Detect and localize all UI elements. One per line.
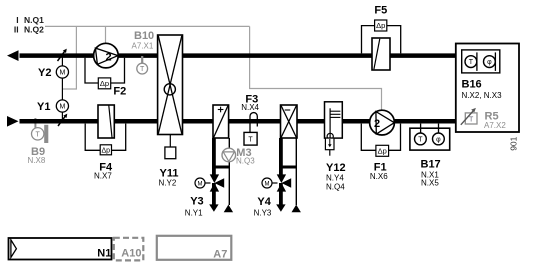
monitor F1 dp box (376, 145, 389, 156)
cooling coil box (281, 105, 298, 138)
room unit B16 T sensor (465, 56, 477, 68)
actuator Y1 M circle (56, 100, 68, 112)
svg-text:A7.X2: A7.X2 (484, 121, 506, 130)
fan supply (2-speed) (370, 110, 395, 135)
svg-text:N.Y4: N.Y4 (326, 173, 344, 182)
svg-text:II: II (14, 25, 19, 35)
svg-text:N.Q3: N.Q3 (236, 157, 255, 166)
room unit B16 humidity sensor (484, 56, 496, 68)
monitor F4 dp loop (85, 124, 126, 151)
svg-text:N.Y3: N.Y3 (254, 209, 272, 218)
sensor B17 stems (420, 124, 422, 134)
filter F5 box (372, 38, 390, 70)
monitor F4 dp box (100, 145, 111, 155)
arrow supply air in (right) (7, 116, 19, 127)
fan extract (2-speed) (94, 43, 119, 68)
svg-text:Δp: Δp (100, 79, 109, 88)
arrow Y4 return up (292, 205, 301, 213)
svg-text:2: 2 (106, 52, 112, 64)
svg-text:M: M (198, 181, 203, 187)
svg-text:N.X7: N.X7 (94, 172, 112, 181)
svg-text:N.Q1: N.Q1 (24, 15, 44, 25)
heating coil box (213, 105, 229, 138)
sensor B9 wall bar (44, 125, 48, 143)
svg-text:Y12: Y12 (326, 162, 346, 174)
filter F4 box (98, 105, 114, 138)
duct extract (top) (20, 53, 458, 58)
monitor F5 dp box (375, 20, 387, 31)
room unit B16 box (456, 44, 519, 133)
svg-text:N.Q2: N.Q2 (24, 25, 44, 35)
pump M3 (222, 148, 236, 162)
valve Y4 (3-way) (279, 183, 283, 205)
svg-text:2: 2 (374, 118, 380, 130)
svg-text:φ: φ (487, 59, 492, 66)
wire Y1 actuator link (61, 112, 63, 119)
pipe heating supply (thick) (212, 138, 216, 175)
wire gray run to supply fan (250, 26, 382, 111)
svg-text:N.Y1: N.Y1 (185, 209, 203, 218)
actuator Y11 box (165, 147, 176, 159)
svg-text:Δp: Δp (378, 146, 387, 155)
svg-text:B16: B16 (462, 78, 482, 90)
heat recovery wheel Y11 (158, 35, 183, 135)
pipe cooling supply (thick) (279, 138, 283, 175)
svg-text:T: T (36, 131, 41, 138)
sensor B10 circle (137, 63, 148, 74)
svg-text:T: T (469, 117, 474, 124)
svg-text:Δp: Δp (102, 148, 111, 155)
svg-text:F2: F2 (113, 86, 126, 98)
actuator Y3 M circle (205, 182, 211, 184)
svg-text:B10: B10 (134, 30, 154, 42)
svg-text:M: M (59, 70, 65, 77)
svg-text:Y3: Y3 (190, 196, 203, 208)
module A10 dashed box (114, 238, 144, 261)
svg-text:B17: B17 (421, 158, 441, 170)
thermostat F3 capillary (250, 113, 257, 133)
svg-text:T: T (140, 66, 145, 73)
room unit B16 sensor frame (462, 50, 500, 73)
monitor F2 dp loop (85, 58, 125, 83)
wire Y11 actuator stem (169, 135, 171, 148)
wire Y2 actuator link (61, 58, 63, 67)
pipe cooling bypass stub (280, 166, 297, 169)
setpoint R5 symbol (465, 113, 477, 124)
monitor F2 dp box (98, 78, 110, 89)
arrow Y4 supply down (276, 204, 285, 211)
pipe heating bypass stub (213, 166, 230, 169)
damper blade top duct (58, 50, 66, 61)
sensor B10 stem (141, 56, 143, 63)
svg-text:Δp: Δp (376, 21, 385, 30)
svg-text:Y2: Y2 (38, 67, 51, 79)
humidifier Y12 water sub-box (325, 138, 334, 150)
svg-text:I: I (16, 15, 18, 25)
svg-text:N.X4: N.X4 (241, 103, 259, 112)
node N.Q1 bus gray horizontal (45, 25, 250, 27)
svg-text:A7.X1: A7.X1 (132, 42, 154, 51)
svg-text:φ: φ (436, 137, 441, 144)
svg-text:N.X2, N.X3: N.X2, N.X3 (462, 91, 503, 100)
damper blade bottom duct (58, 115, 66, 126)
monitor F1 dp loop (361, 124, 400, 151)
arrow Y3 supply down (209, 204, 218, 211)
sensor B9 circle (32, 128, 44, 140)
arrow extract air out (left) (7, 50, 19, 61)
valve Y3 (3-way) (212, 183, 216, 205)
wire Y12 stem (329, 150, 331, 156)
svg-text:Y1: Y1 (37, 101, 50, 113)
monitor F5 dp loop (362, 26, 401, 54)
svg-text:T: T (469, 59, 474, 66)
svg-text:N.Q4: N.Q4 (326, 183, 345, 192)
svg-text:N.X8: N.X8 (28, 156, 46, 165)
sensor B9 stem (34, 118, 36, 128)
actuator Y2 M circle (56, 66, 68, 78)
wire link between dampers (61, 78, 63, 100)
humidifier Y12 box (325, 102, 343, 138)
wire gray drop to extract fan (105, 26, 107, 44)
svg-text:T: T (418, 137, 423, 144)
svg-text:N.Y2: N.Y2 (159, 178, 177, 187)
svg-text:M: M (59, 104, 65, 111)
svg-text:T: T (248, 137, 253, 144)
arrow Y3 return up (224, 205, 233, 213)
pipe cooling return (thin) (295, 138, 297, 205)
svg-text:N.X6: N.X6 (370, 172, 388, 181)
wire gray drop to damper link (62, 26, 76, 89)
svg-text:Y4: Y4 (257, 196, 271, 208)
thermostat F3 box (244, 132, 257, 145)
actuator Y4 M circle (272, 182, 278, 184)
sensor B17 T circle (415, 133, 427, 145)
svg-text:F5: F5 (374, 5, 387, 17)
controller N1 box (9, 238, 112, 260)
sensor B17 box (410, 128, 450, 150)
svg-text:A10: A10 (121, 248, 141, 260)
svg-text:M: M (265, 181, 270, 187)
module A7 box (157, 236, 232, 260)
sensor B17 humidity circle (433, 133, 445, 145)
duct supply (bottom) (20, 119, 458, 124)
svg-text:A7: A7 (213, 249, 227, 261)
svg-text:901: 901 (509, 136, 519, 150)
pipe heating return (thin) (228, 138, 230, 205)
svg-text:N.X5: N.X5 (421, 179, 439, 188)
svg-text:N1: N1 (97, 248, 111, 260)
